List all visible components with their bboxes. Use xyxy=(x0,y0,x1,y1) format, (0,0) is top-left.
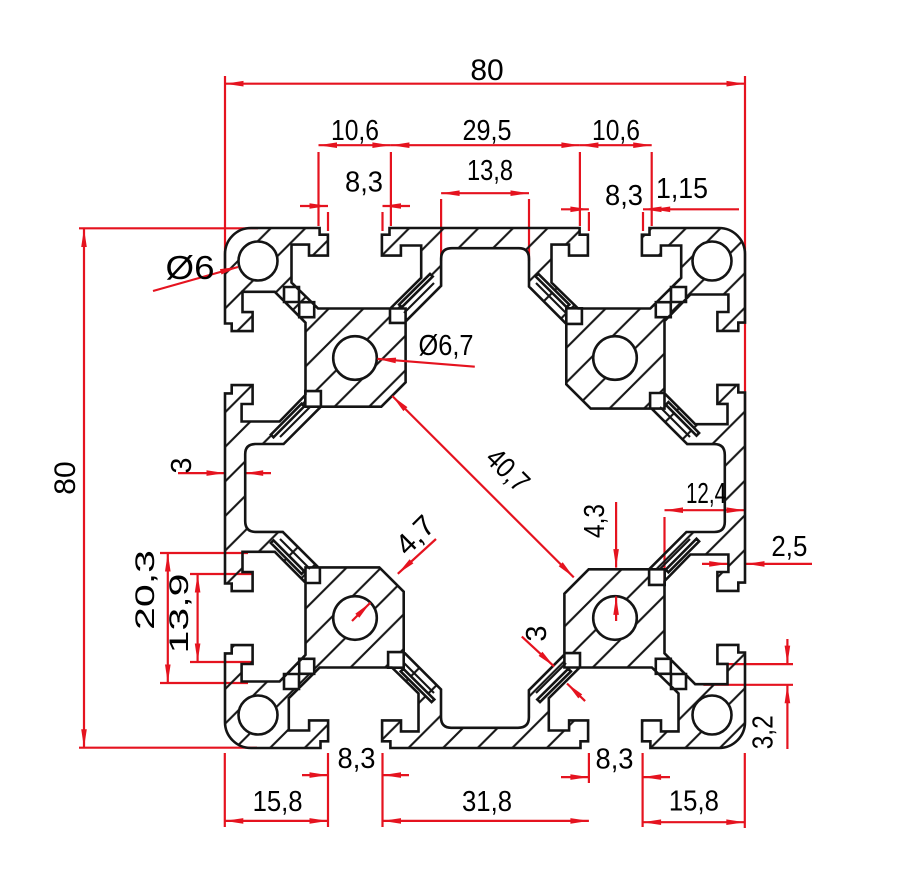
aluminium profile cross-section: hatched material xyxy=(225,228,745,748)
dim 12,4 (slot depth) xyxy=(665,509,746,511)
svg-text:2,5: 2,5 xyxy=(771,531,807,563)
dim 31,8 (bottom centre flat) xyxy=(383,820,589,822)
dim 8,3 (bottom-right slot opening) xyxy=(561,776,589,778)
dim 13,9 (between lips) xyxy=(197,574,199,662)
dim 40,7 (diagonal cavity) xyxy=(392,396,574,577)
dim 13,8 (centre bridge) xyxy=(441,192,529,194)
dim 20,3 (slot cavity width) xyxy=(167,553,169,683)
svg-text:20,3: 20,3 xyxy=(130,550,160,630)
svg-text:8,3: 8,3 xyxy=(605,180,643,212)
svg-text:3,2: 3,2 xyxy=(748,715,780,749)
dim 15,8 (bottom-right flat) xyxy=(643,821,745,823)
svg-text:1,15: 1,15 xyxy=(656,173,708,205)
svg-text:10,6: 10,6 xyxy=(592,115,640,147)
dim 8,3 (top-right slot opening) xyxy=(561,208,589,210)
svg-text:8,3: 8,3 xyxy=(596,744,634,776)
dim 10,6 (left slot pitch) xyxy=(319,144,391,146)
dim 8,3 (top-left slot opening) xyxy=(300,205,328,207)
dim 3 (left wall thickness) xyxy=(178,472,225,474)
dim Ø6 leader (corner hole) xyxy=(153,267,238,291)
dim 10,6 (right slot pitch) xyxy=(580,144,652,146)
dim 80 (left height) xyxy=(83,229,85,748)
dimension texts xyxy=(49,54,807,818)
dim 3,2 (notch step) xyxy=(786,639,788,664)
svg-text:80: 80 xyxy=(470,54,503,87)
svg-text:13,9: 13,9 xyxy=(164,574,194,654)
red dimension lines (under) xyxy=(79,76,812,828)
svg-text:15,8: 15,8 xyxy=(669,786,719,818)
svg-text:4,7: 4,7 xyxy=(389,509,441,561)
dim 4,7 (boss chamfer wall) xyxy=(398,539,436,574)
svg-text:13,8: 13,8 xyxy=(467,155,513,187)
dim 4,3 (boss top wall) xyxy=(615,502,617,568)
svg-text:Ø6,7: Ø6,7 xyxy=(419,330,474,362)
svg-text:3: 3 xyxy=(521,625,553,641)
dim 29,5 (between slots) xyxy=(391,144,580,146)
dim 1,15 (lip step) xyxy=(652,208,739,210)
svg-text:12,4: 12,4 xyxy=(686,478,726,510)
dim 3 (web wall thickness) xyxy=(522,637,554,667)
dim 2,5 (lip notch depth) xyxy=(702,563,728,565)
dim 15,8 (bottom-left flat) xyxy=(225,820,328,822)
svg-text:8,3: 8,3 xyxy=(338,743,376,775)
svg-text:4,3: 4,3 xyxy=(579,504,611,538)
svg-text:31,8: 31,8 xyxy=(462,786,512,818)
svg-text:29,5: 29,5 xyxy=(463,115,512,147)
dim Ø6,7 leader (core hole) xyxy=(377,359,474,367)
svg-text:3: 3 xyxy=(166,457,198,473)
svg-text:Ø6: Ø6 xyxy=(166,249,215,286)
svg-text:80: 80 xyxy=(49,461,82,494)
dim 8,3 (bottom-left slot opening) xyxy=(302,774,328,776)
dim 80 (top width) xyxy=(225,83,745,85)
red dimension lines (top) xyxy=(153,267,619,701)
svg-text:10,6: 10,6 xyxy=(331,115,379,147)
svg-text:15,8: 15,8 xyxy=(253,786,303,818)
svg-text:8,3: 8,3 xyxy=(345,167,383,199)
